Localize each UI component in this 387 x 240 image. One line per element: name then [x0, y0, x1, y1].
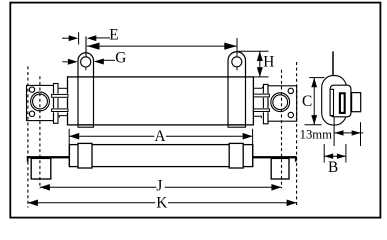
dimension A left extension / rod left end — [68, 129, 70, 167]
dimension J line — [40, 186, 156, 188]
right plate large hole outer ring — [271, 93, 290, 112]
left neck bottom step — [59, 116, 67, 118]
rod right cap — [229, 143, 243, 168]
right tab lower wrap — [228, 125, 246, 127]
dimension 13mm line with arrows — [334, 132, 363, 134]
dashed centerline left hole (J extent) — [39, 76, 41, 188]
left mounting tab outline — [78, 53, 94, 125]
side view outer capsule — [322, 76, 347, 125]
dimension C bottom extension — [305, 124, 322, 126]
dimension K line — [28, 202, 155, 204]
dimension A right extension / rod right end — [252, 129, 254, 167]
right foot — [271, 158, 289, 179]
dimension E extension ticks — [78, 32, 80, 44]
right plate large hole inner ring — [273, 95, 288, 110]
left mounting bar — [27, 156, 70, 158]
dashed centerline far right (K extent) — [296, 62, 298, 208]
side view top tab line — [332, 51, 334, 76]
svg-text:G: G — [115, 50, 126, 67]
left neck top line — [58, 87, 68, 89]
side view thick inner rect — [340, 93, 345, 113]
left end plate flange — [54, 84, 59, 124]
left lower pin — [51, 108, 68, 112]
right mounting bar — [253, 156, 296, 158]
svg-text:C: C — [302, 93, 312, 110]
right neck bottom step — [253, 116, 261, 118]
dashed centerline right hole (J extent) — [281, 70, 283, 189]
left plate lower small hole — [29, 111, 34, 116]
right neck top step — [253, 85, 264, 88]
main body rectangle — [68, 77, 254, 125]
right plate upper small hole — [288, 88, 293, 93]
right end plate flange — [263, 84, 268, 123]
dimension B line with arrows — [324, 155, 346, 157]
svg-text:13mm: 13mm — [300, 127, 333, 141]
left tab centerline — [85, 36, 87, 56]
left upper pin — [51, 94, 68, 99]
side view inner rounded rect — [330, 85, 351, 117]
left plate large hole outer ring — [31, 92, 50, 111]
dimension G left arrow — [62, 61, 67, 63]
dimension B left extension — [323, 144, 325, 163]
right bar end lip — [295, 156, 297, 162]
side view left narrow rect — [330, 89, 333, 115]
dimension E right arrow and leader — [87, 35, 97, 41]
right tab centerline — [236, 38, 238, 57]
right lower pin — [254, 108, 270, 112]
svg-text:K: K — [156, 194, 167, 211]
lower rod body — [69, 145, 252, 167]
left bar end lip — [27, 156, 29, 162]
dimension A line — [69, 135, 154, 137]
right end plate — [268, 86, 297, 121]
side view right tab rect — [352, 93, 361, 112]
dimension C line with arrows — [313, 78, 315, 125]
right tab hole — [232, 57, 242, 67]
svg-text:J: J — [156, 178, 162, 195]
side view bottom tab line — [333, 117, 335, 146]
left plate upper small hole — [29, 87, 34, 92]
dashed centerline far left (K extent) — [27, 66, 29, 207]
right upper pin — [254, 93, 270, 97]
tab-to-tab dimension line — [87, 45, 237, 47]
dimension C top extension — [309, 77, 324, 79]
dimension G right arrow and leader — [94, 59, 104, 65]
svg-text:E: E — [109, 27, 118, 44]
dimension H line with arrows — [259, 51, 261, 77]
svg-text:H: H — [263, 53, 274, 70]
left foot — [31, 158, 51, 179]
rod left cap — [78, 143, 92, 168]
dimension B right extension — [345, 144, 347, 163]
svg-text:A: A — [155, 128, 166, 145]
left tab hole — [81, 57, 91, 67]
right mounting tab outline — [228, 52, 246, 125]
left plate large hole inner ring — [33, 94, 48, 109]
left tab lower wrap — [78, 125, 94, 127]
svg-text:B: B — [328, 159, 338, 176]
left end plate — [27, 85, 54, 120]
dimension E left arrow — [62, 37, 71, 39]
right plate lower small hole — [288, 112, 293, 117]
dimension H top extension line — [238, 50, 269, 52]
dimension H bottom extension line — [253, 76, 268, 78]
dimension 13mm right extension — [360, 122, 362, 146]
